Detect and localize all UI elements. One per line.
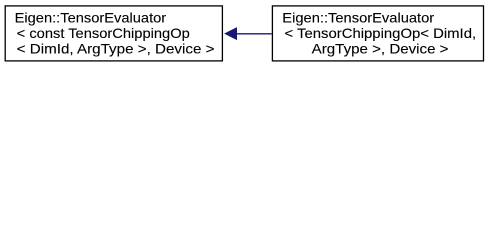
svg-text:Eigen::TensorEvaluator: Eigen::TensorEvaluator [282, 9, 434, 25]
svg-text:< DimId, ArgType >, Device >: < DimId, ArgType >, Device > [17, 40, 215, 56]
svg-text:ArgType >, Device >: ArgType >, Device > [312, 40, 449, 56]
svg-text:< const TensorChippingOp: < const TensorChippingOp [17, 25, 190, 41]
svg-text:Eigen::TensorEvaluator: Eigen::TensorEvaluator [15, 9, 167, 25]
svg-text:< TensorChippingOp< DimId,: < TensorChippingOp< DimId, [285, 25, 477, 41]
